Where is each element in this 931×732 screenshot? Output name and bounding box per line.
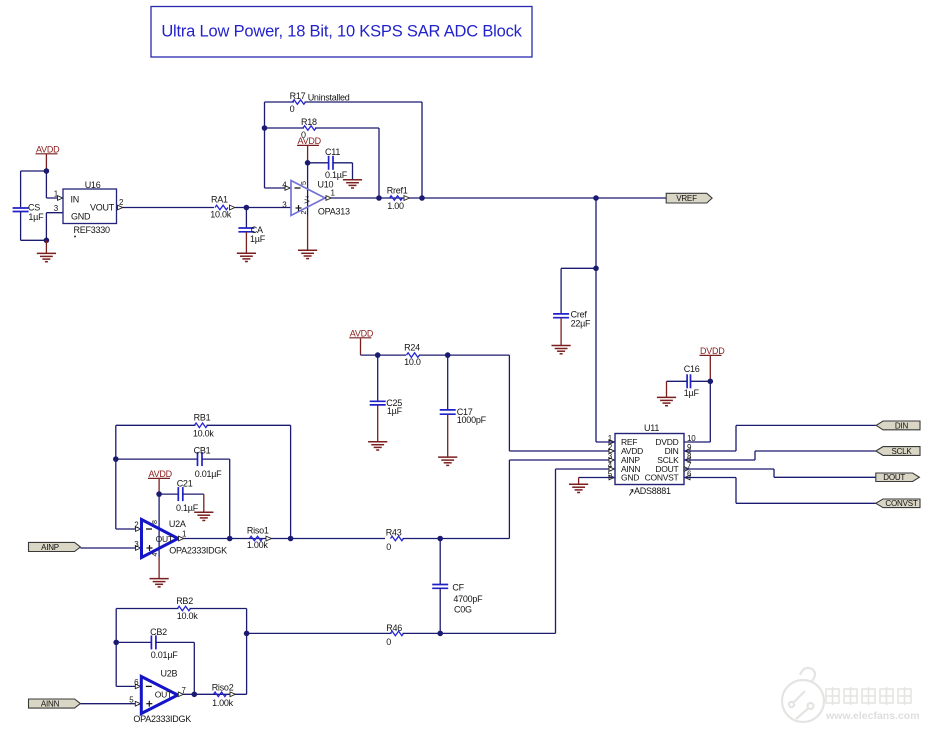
svg-text:AINP: AINP (41, 543, 59, 552)
svg-text:AINN: AINN (41, 699, 60, 708)
svg-text:OUT: OUT (156, 534, 173, 544)
svg-text:R43: R43 (386, 527, 402, 537)
svg-text:1µF: 1µF (387, 406, 403, 416)
svg-text:CB2: CB2 (150, 627, 167, 637)
svg-text:RB1: RB1 (194, 413, 211, 423)
svg-text:R18: R18 (301, 117, 317, 127)
svg-text:10.0: 10.0 (404, 357, 421, 367)
svg-text:GND: GND (71, 212, 91, 222)
svg-text:OPA2333IDGK: OPA2333IDGK (169, 546, 227, 556)
svg-text:U11: U11 (644, 423, 659, 433)
svg-text:C16: C16 (684, 364, 700, 374)
svg-text:0: 0 (386, 542, 391, 552)
svg-text:CB1: CB1 (194, 445, 211, 455)
svg-text:SCLK: SCLK (891, 447, 912, 456)
svg-text:0: 0 (386, 637, 391, 647)
svg-text:R17: R17 (290, 91, 306, 101)
svg-text:V+: V+ (305, 195, 312, 204)
svg-text:1µF: 1µF (250, 234, 266, 244)
svg-text:DIN: DIN (895, 421, 909, 430)
svg-text:DVDD: DVDD (700, 346, 725, 356)
svg-text:0: 0 (290, 104, 295, 114)
svg-text:22µF: 22µF (571, 319, 591, 329)
svg-text:5: 5 (301, 181, 308, 185)
svg-text:Ultra Low Power, 18 Bit, 10 KS: Ultra Low Power, 18 Bit, 10 KSPS SAR ADC… (161, 23, 522, 41)
svg-text:U16: U16 (85, 180, 101, 190)
svg-text:C21: C21 (177, 479, 193, 489)
svg-text:CF: CF (452, 583, 464, 593)
svg-text:4: 4 (152, 553, 159, 557)
svg-text:Rref1: Rref1 (387, 186, 408, 196)
svg-text:Riso2: Riso2 (212, 682, 234, 692)
svg-text:ADS8881: ADS8881 (634, 486, 671, 496)
svg-text:1µF: 1µF (684, 388, 700, 398)
svg-text:1000pF: 1000pF (457, 415, 487, 425)
svg-text:AVDD: AVDD (350, 328, 374, 338)
svg-text:DOUT: DOUT (883, 473, 905, 482)
svg-text:CONVST: CONVST (885, 499, 917, 508)
svg-text:AVDD: AVDD (149, 469, 173, 479)
svg-text:1.00k: 1.00k (212, 698, 234, 708)
svg-text:REF3330: REF3330 (74, 225, 111, 235)
svg-text:8: 8 (152, 520, 159, 524)
svg-text:R24: R24 (404, 343, 420, 353)
svg-text:0.01µF: 0.01µF (151, 650, 178, 660)
svg-text:RB2: RB2 (176, 596, 193, 606)
svg-text:0.01µF: 0.01µF (195, 469, 222, 479)
svg-text:1µF: 1µF (28, 212, 44, 222)
svg-text:RA1: RA1 (211, 194, 228, 204)
svg-text:OUT: OUT (155, 690, 172, 700)
svg-text:U2B: U2B (161, 669, 178, 679)
svg-text:OPA313: OPA313 (318, 207, 350, 217)
svg-text:R46: R46 (386, 623, 402, 633)
svg-text:VREF: VREF (676, 194, 697, 203)
svg-text:CONVST: CONVST (645, 473, 679, 483)
svg-text:Riso1: Riso1 (247, 526, 269, 536)
svg-text:10.0k: 10.0k (177, 611, 199, 621)
svg-text:1.00: 1.00 (387, 201, 404, 211)
svg-text:U2A: U2A (169, 519, 186, 529)
svg-text:GND: GND (621, 473, 639, 483)
svg-text:0.1µF: 0.1µF (176, 503, 199, 513)
svg-text:www.elecfans.com: www.elecfans.com (825, 710, 920, 722)
svg-text:10.0k: 10.0k (193, 428, 215, 438)
svg-text:AVDD: AVDD (36, 144, 60, 154)
svg-text:C0G: C0G (454, 605, 472, 615)
svg-text:AVDD: AVDD (298, 136, 322, 146)
svg-text:VOUT: VOUT (90, 202, 115, 212)
svg-text:4700pF: 4700pF (453, 594, 483, 604)
svg-text:IN: IN (71, 194, 80, 204)
svg-text:2: 2 (301, 211, 308, 215)
svg-text:OPA2333IDGK: OPA2333IDGK (133, 714, 191, 724)
svg-text:C11: C11 (325, 147, 340, 157)
svg-text:1.00k: 1.00k (247, 540, 269, 550)
svg-text:0.1µF: 0.1µF (325, 170, 348, 180)
svg-text:Uninstalled: Uninstalled (308, 92, 350, 102)
svg-text:10.0k: 10.0k (210, 209, 232, 219)
